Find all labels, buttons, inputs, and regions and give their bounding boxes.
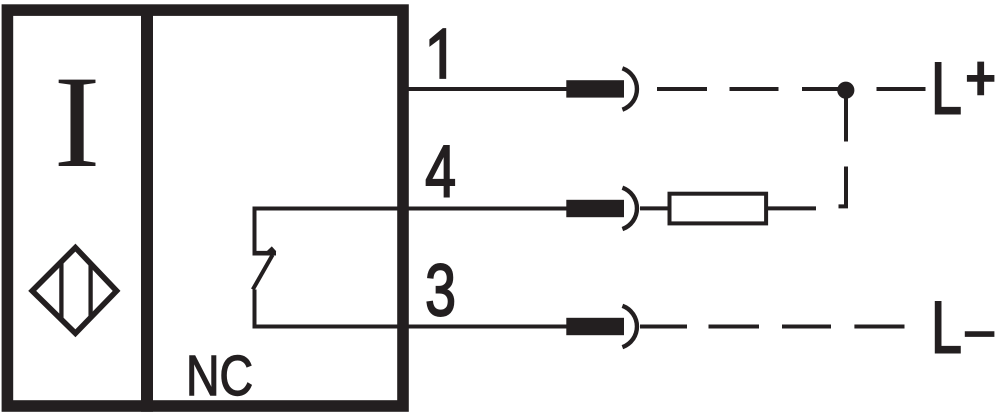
wire pin3 from switch bbox=[255, 325, 568, 329]
wire pin3 dash b bbox=[782, 325, 831, 329]
diamond inner left bar bbox=[59, 263, 63, 320]
wire pin3 lead bbox=[640, 325, 687, 329]
pin 4 male contact bbox=[566, 200, 624, 217]
node L- minus bbox=[965, 331, 995, 337]
wire pin1 dash d bbox=[877, 87, 926, 91]
pin 4 socket arc bbox=[622, 188, 637, 229]
junction dot bbox=[837, 82, 854, 99]
NC contact: moving blade bbox=[253, 255, 273, 290]
svg-text:I: I bbox=[54, 49, 101, 195]
svg-text:L: L bbox=[931, 286, 962, 368]
wire pin1 from housing bbox=[403, 87, 567, 91]
wire pin4 from switch bbox=[255, 207, 568, 211]
pin 1 male contact bbox=[566, 80, 624, 97]
NC contact: upper fixed terminal bbox=[253, 207, 257, 254]
diamond inner right bar bbox=[88, 264, 92, 319]
sensor housing outline bbox=[7, 10, 403, 406]
wire pin1 dash a bbox=[657, 87, 707, 91]
pin 3 socket arc bbox=[622, 306, 637, 347]
wire pin1 dash b bbox=[730, 87, 779, 91]
branch dash corner bbox=[839, 167, 847, 207]
svg-text:L: L bbox=[931, 47, 962, 129]
wire pin3 dash a bbox=[709, 325, 760, 329]
node L+ plus vertical bbox=[977, 62, 984, 96]
pin number 1 bbox=[429, 28, 446, 79]
pin 1 socket arc bbox=[622, 68, 637, 109]
NC contact: lower terminal bbox=[253, 290, 257, 329]
branch dash upper bbox=[844, 99, 848, 142]
node L+ plus horizontal bbox=[967, 75, 995, 82]
wire pin1 dash c bbox=[802, 87, 840, 91]
svg-text:NC: NC bbox=[186, 344, 253, 408]
wire arc to load bbox=[640, 206, 668, 210]
NC contact: arrowhead bbox=[267, 246, 277, 251]
load resistor bbox=[670, 194, 767, 224]
svg-text:3: 3 bbox=[425, 249, 456, 331]
pin 3 male contact bbox=[566, 318, 624, 335]
svg-text:4: 4 bbox=[425, 130, 456, 212]
wire load lead bbox=[768, 206, 816, 210]
wire pin3 dash c bbox=[854, 325, 904, 329]
proximity sensor diamond symbol bbox=[32, 248, 116, 334]
NC contact: fixed contact tick bbox=[253, 251, 277, 256]
housing divider bbox=[141, 5, 153, 412]
